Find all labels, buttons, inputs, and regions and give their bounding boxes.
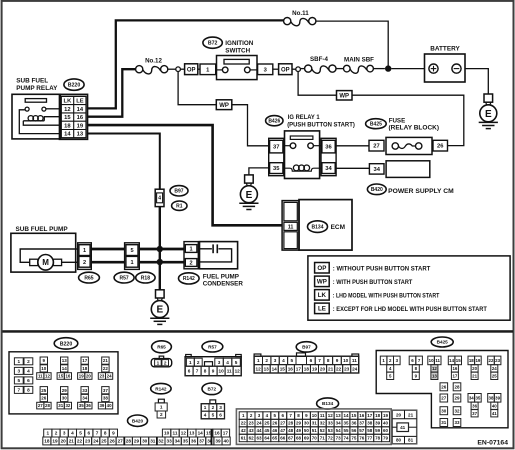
svg-text:49: 49 [296, 428, 302, 433]
svg-text:6: 6 [27, 378, 30, 383]
svg-text:14: 14 [449, 358, 454, 363]
svg-text:R18: R18 [141, 275, 150, 281]
svg-text:14: 14 [343, 413, 349, 418]
svg-text:39: 39 [495, 395, 500, 400]
svg-text:14: 14 [77, 107, 84, 113]
svg-text:ECM: ECM [331, 224, 345, 231]
svg-text:34: 34 [325, 166, 332, 172]
svg-text:31: 31 [150, 439, 156, 444]
svg-text:66: 66 [280, 436, 286, 441]
svg-text:1: 1 [157, 360, 160, 365]
svg-text:11: 11 [288, 224, 294, 230]
svg-text:23: 23 [99, 374, 104, 379]
svg-text:48: 48 [288, 428, 294, 433]
svg-text:65: 65 [272, 436, 278, 441]
svg-text:45: 45 [264, 428, 270, 433]
svg-text:B425: B425 [370, 122, 382, 128]
svg-text:MAIN SBF: MAIN SBF [344, 57, 374, 64]
svg-text:34: 34 [175, 439, 181, 444]
svg-text:8: 8 [204, 369, 207, 374]
svg-text:19: 19 [52, 439, 58, 444]
svg-text:81: 81 [408, 438, 414, 443]
svg-text:OP: OP [281, 67, 290, 73]
svg-text:SUB FUEL: SUB FUEL [16, 77, 48, 84]
svg-text:73: 73 [336, 436, 342, 441]
svg-text:6: 6 [188, 369, 191, 374]
svg-text:38: 38 [367, 421, 373, 426]
svg-text:12: 12 [181, 431, 187, 436]
svg-text:80: 80 [396, 438, 402, 443]
svg-text:BATTERY: BATTERY [430, 46, 460, 53]
svg-text:11: 11 [227, 369, 232, 374]
svg-text:20: 20 [472, 366, 477, 371]
svg-text:27: 27 [280, 421, 286, 426]
svg-text:57: 57 [359, 428, 365, 433]
svg-text:2: 2 [160, 412, 163, 417]
svg-text:10: 10 [218, 369, 224, 374]
svg-text:M: M [42, 258, 49, 267]
svg-text:4: 4 [204, 413, 207, 418]
svg-text:3: 3 [219, 405, 222, 410]
svg-text:OP: OP [317, 265, 326, 272]
svg-text:39: 39 [215, 439, 221, 444]
svg-text:22: 22 [489, 358, 494, 363]
svg-text:13: 13 [189, 431, 195, 436]
svg-text:33: 33 [166, 439, 172, 444]
svg-text:B420: B420 [132, 418, 144, 423]
svg-text:41: 41 [400, 425, 406, 430]
svg-text:13: 13 [62, 358, 68, 363]
svg-text:23: 23 [85, 439, 91, 444]
svg-text:(RELAY BLOCK): (RELAY BLOCK) [389, 125, 440, 132]
svg-text:11: 11 [38, 374, 43, 379]
svg-text:18: 18 [44, 439, 50, 444]
svg-text:17: 17 [452, 373, 457, 378]
svg-text:1: 1 [189, 360, 192, 365]
svg-text:5: 5 [212, 413, 215, 418]
svg-text:B134: B134 [322, 401, 334, 406]
svg-text:39: 39 [375, 421, 381, 426]
svg-text:24: 24 [256, 421, 262, 426]
svg-text:34: 34 [336, 421, 342, 426]
svg-text:31: 31 [312, 421, 318, 426]
svg-text:B97: B97 [174, 189, 183, 195]
svg-text:10: 10 [312, 413, 318, 418]
svg-text:LK: LK [64, 99, 73, 105]
svg-text:63: 63 [256, 436, 262, 441]
svg-text:24: 24 [107, 374, 112, 379]
svg-text:27: 27 [373, 144, 379, 150]
svg-text:7: 7 [196, 369, 199, 374]
svg-text:21: 21 [69, 439, 75, 444]
svg-text:58: 58 [367, 428, 373, 433]
svg-text:4: 4 [282, 358, 285, 363]
svg-text:29: 29 [296, 421, 302, 426]
svg-text:38: 38 [489, 395, 494, 400]
svg-text:SUB FUEL PUMP: SUB FUEL PUMP [16, 226, 69, 233]
svg-text:10: 10 [343, 358, 349, 363]
svg-text:16: 16 [288, 367, 294, 372]
svg-text:24: 24 [93, 439, 99, 444]
svg-text:5: 5 [79, 431, 82, 436]
svg-text:B425: B425 [437, 340, 449, 345]
svg-text:43: 43 [249, 428, 255, 433]
svg-text:5: 5 [130, 248, 133, 254]
svg-text:18: 18 [304, 367, 310, 372]
svg-text:1: 1 [190, 247, 193, 253]
svg-text:39: 39 [99, 403, 104, 408]
svg-text:R57: R57 [120, 275, 129, 281]
svg-text:32: 32 [320, 421, 326, 426]
svg-text:1: 1 [17, 359, 20, 364]
svg-text:64: 64 [264, 436, 270, 441]
svg-text:34: 34 [82, 396, 88, 401]
svg-text:7: 7 [318, 358, 321, 363]
svg-text:1: 1 [83, 248, 86, 254]
svg-text:4: 4 [158, 196, 161, 202]
svg-text:21: 21 [328, 367, 334, 372]
svg-text:1: 1 [46, 431, 49, 436]
svg-text:11: 11 [352, 358, 357, 363]
svg-text:POWER SUPPLY CM: POWER SUPPLY CM [388, 188, 454, 195]
svg-text:7: 7 [17, 388, 20, 393]
svg-text:2: 2 [212, 405, 215, 410]
svg-text:37: 37 [273, 145, 279, 151]
svg-text:No.12: No.12 [145, 57, 162, 64]
svg-text:9: 9 [112, 431, 115, 436]
svg-text:4: 4 [226, 360, 229, 365]
svg-text:14: 14 [62, 366, 68, 371]
svg-text:27: 27 [38, 403, 43, 408]
svg-text:37: 37 [359, 421, 365, 426]
svg-text:8: 8 [104, 431, 107, 436]
svg-text:14: 14 [198, 431, 204, 436]
svg-text:26: 26 [109, 439, 115, 444]
svg-text:1: 1 [130, 260, 133, 266]
svg-text:18: 18 [82, 366, 88, 371]
svg-text:16: 16 [452, 366, 457, 371]
svg-text:29: 29 [62, 388, 68, 393]
svg-text:8: 8 [27, 388, 30, 393]
svg-text:13: 13 [264, 367, 270, 372]
svg-text:34: 34 [469, 395, 474, 400]
svg-text:B72: B72 [207, 387, 216, 392]
svg-text:13: 13 [77, 132, 84, 138]
svg-text:E: E [156, 305, 163, 316]
svg-text:69: 69 [304, 436, 310, 441]
svg-text:71: 71 [320, 436, 326, 441]
svg-text:B220: B220 [68, 83, 81, 89]
svg-text:R1: R1 [176, 204, 183, 210]
svg-text:78: 78 [375, 436, 381, 441]
svg-text:40: 40 [492, 403, 497, 408]
svg-text:35: 35 [183, 439, 189, 444]
svg-text:LE: LE [318, 306, 326, 313]
svg-text:29: 29 [134, 439, 140, 444]
svg-text:SWITCH: SWITCH [225, 48, 250, 55]
svg-text:2: 2 [265, 358, 268, 363]
svg-text:IGNITION: IGNITION [225, 40, 253, 47]
svg-text:B72: B72 [208, 41, 218, 47]
svg-text:7: 7 [96, 431, 99, 436]
svg-text:SBF-4: SBF-4 [310, 56, 328, 63]
svg-text:34: 34 [373, 167, 380, 173]
svg-text:23: 23 [344, 367, 350, 372]
svg-text:20: 20 [61, 439, 67, 444]
svg-text:PUMP RELAY: PUMP RELAY [16, 85, 58, 92]
svg-text:15: 15 [351, 413, 357, 418]
svg-text:19: 19 [383, 413, 389, 418]
svg-text:35: 35 [273, 166, 280, 172]
svg-text:FUEL PUMP: FUEL PUMP [203, 273, 239, 280]
svg-text:3: 3 [274, 358, 277, 363]
svg-text:44: 44 [256, 428, 262, 433]
svg-text:33: 33 [328, 421, 334, 426]
svg-text:30: 30 [62, 396, 68, 401]
svg-text:28: 28 [45, 403, 50, 408]
svg-text:17: 17 [367, 413, 373, 418]
svg-text:12: 12 [235, 369, 241, 374]
svg-text:50: 50 [304, 428, 310, 433]
svg-text:LK: LK [318, 292, 327, 299]
svg-text:22: 22 [77, 439, 83, 444]
svg-text:36: 36 [191, 439, 197, 444]
svg-text:33: 33 [82, 388, 88, 393]
svg-text:IG RELAY 1: IG RELAY 1 [288, 114, 320, 121]
svg-text:2: 2 [190, 261, 193, 267]
svg-text:24: 24 [352, 367, 358, 372]
svg-text:4: 4 [71, 431, 74, 436]
svg-text:26: 26 [437, 144, 444, 150]
svg-text:59: 59 [375, 428, 381, 433]
svg-text:9: 9 [336, 358, 339, 363]
svg-text:(PUSH BUTTON START): (PUSH BUTTON START) [287, 121, 355, 128]
svg-text:FUSE: FUSE [389, 117, 406, 124]
svg-text:27: 27 [441, 396, 447, 401]
svg-text:11: 11 [320, 413, 325, 418]
svg-text:E: E [485, 109, 492, 120]
svg-text:46: 46 [272, 428, 278, 433]
svg-text:3: 3 [218, 360, 221, 365]
svg-text:21: 21 [472, 373, 477, 378]
svg-text:B426: B426 [268, 119, 280, 125]
svg-text:5: 5 [235, 360, 238, 365]
svg-text:2: 2 [83, 260, 86, 266]
svg-text:10: 10 [429, 358, 434, 363]
svg-text:42: 42 [241, 428, 247, 433]
svg-text:8: 8 [327, 358, 330, 363]
svg-text:27: 27 [118, 439, 124, 444]
svg-text:52: 52 [320, 428, 326, 433]
svg-text:36: 36 [86, 403, 91, 408]
svg-text:11: 11 [435, 358, 440, 363]
svg-text:40: 40 [383, 421, 389, 426]
svg-text:12: 12 [328, 413, 334, 418]
svg-text:13: 13 [336, 413, 342, 418]
svg-text:31: 31 [58, 403, 63, 408]
svg-text:17: 17 [296, 367, 302, 372]
svg-text:17: 17 [223, 431, 229, 436]
svg-text:6: 6 [87, 431, 90, 436]
svg-text:R65: R65 [84, 275, 93, 281]
svg-text:16: 16 [214, 431, 220, 436]
svg-text:25: 25 [492, 373, 497, 378]
svg-text:14: 14 [272, 367, 278, 372]
svg-text:35: 35 [79, 403, 84, 408]
svg-text:EN-07164: EN-07164 [477, 440, 508, 447]
svg-text:37: 37 [199, 439, 205, 444]
svg-text:23: 23 [249, 421, 255, 426]
svg-text:R142: R142 [183, 276, 195, 282]
svg-text:40: 40 [107, 403, 112, 408]
svg-text:2: 2 [164, 360, 167, 365]
svg-text:41: 41 [492, 411, 497, 416]
svg-text:26: 26 [272, 421, 278, 426]
svg-text:11: 11 [173, 431, 178, 436]
svg-text:19: 19 [79, 374, 84, 379]
svg-text:R65: R65 [157, 345, 166, 350]
svg-text:28: 28 [126, 439, 132, 444]
svg-text:35: 35 [475, 395, 480, 400]
svg-text:No.11: No.11 [292, 10, 309, 17]
svg-text:32: 32 [158, 439, 164, 444]
svg-text:13: 13 [432, 373, 437, 378]
svg-text:47: 47 [280, 428, 286, 433]
svg-text:18: 18 [375, 413, 381, 418]
svg-text:2: 2 [197, 360, 200, 365]
svg-text:31: 31 [441, 420, 447, 425]
svg-text:18: 18 [64, 123, 71, 129]
svg-text:B220: B220 [60, 341, 73, 347]
svg-text:B97: B97 [302, 345, 311, 350]
svg-text:22: 22 [103, 366, 109, 371]
svg-text:76: 76 [359, 436, 365, 441]
svg-text:16: 16 [65, 374, 70, 379]
svg-text:10: 10 [164, 431, 170, 436]
svg-text:60: 60 [383, 428, 389, 433]
svg-text:33: 33 [454, 420, 460, 425]
svg-text:51: 51 [312, 428, 318, 433]
svg-text:30: 30 [142, 439, 148, 444]
svg-text:20: 20 [396, 413, 402, 418]
svg-text:23: 23 [495, 358, 500, 363]
svg-text:15: 15 [456, 358, 461, 363]
svg-text:25: 25 [41, 388, 47, 393]
svg-text:32: 32 [454, 408, 460, 413]
svg-text:18: 18 [469, 358, 474, 363]
svg-text:25: 25 [101, 439, 107, 444]
svg-text:E: E [246, 190, 253, 201]
svg-text:2: 2 [27, 359, 30, 364]
svg-text:: WITHOUT PUSH BUTTON START: : WITHOUT PUSH BUTTON START [333, 266, 431, 273]
svg-text:CONDENSER: CONDENSER [203, 280, 244, 287]
svg-text:40: 40 [223, 439, 229, 444]
svg-text:4: 4 [27, 369, 30, 374]
svg-text:3: 3 [17, 369, 20, 374]
svg-text:14: 14 [64, 132, 71, 138]
svg-text:72: 72 [328, 436, 334, 441]
svg-text:12: 12 [255, 367, 261, 372]
svg-text:12: 12 [64, 107, 70, 113]
svg-text:67: 67 [288, 436, 294, 441]
svg-text:22: 22 [336, 367, 342, 372]
svg-text:LE: LE [76, 99, 84, 105]
svg-text:R142: R142 [155, 386, 167, 391]
svg-text:: LHD MODEL WITH PUSH BUTTON S: : LHD MODEL WITH PUSH BUTTON START [333, 293, 440, 300]
svg-text:19: 19 [475, 358, 480, 363]
svg-text:32: 32 [65, 403, 70, 408]
svg-text:68: 68 [296, 436, 302, 441]
svg-text:WP: WP [317, 279, 327, 286]
svg-text:5: 5 [290, 358, 293, 363]
svg-text:62: 62 [249, 436, 255, 441]
svg-text:10: 10 [41, 366, 47, 371]
svg-text:35: 35 [343, 421, 349, 426]
svg-text:17: 17 [82, 358, 88, 363]
svg-text:25: 25 [264, 421, 270, 426]
svg-text:21: 21 [408, 413, 414, 418]
svg-text:54: 54 [336, 428, 342, 433]
svg-text:38: 38 [103, 396, 109, 401]
svg-text:WP: WP [339, 94, 349, 100]
svg-text:36: 36 [351, 421, 357, 426]
svg-text:36: 36 [472, 403, 477, 408]
svg-text:16: 16 [359, 413, 365, 418]
svg-text:30: 30 [441, 408, 447, 413]
svg-text:1: 1 [257, 358, 260, 363]
svg-text:12: 12 [432, 366, 437, 371]
svg-text:37: 37 [103, 388, 109, 393]
svg-text:5: 5 [17, 378, 20, 383]
svg-text:12: 12 [45, 374, 50, 379]
svg-text:77: 77 [367, 436, 373, 441]
svg-text:20: 20 [320, 367, 326, 372]
svg-text:6: 6 [310, 358, 313, 363]
svg-text:19: 19 [77, 123, 84, 129]
svg-text:B134: B134 [312, 224, 324, 230]
svg-text:53: 53 [328, 428, 334, 433]
svg-text:1: 1 [204, 405, 207, 410]
svg-text:56: 56 [351, 428, 357, 433]
svg-text:26: 26 [441, 384, 447, 389]
svg-text:15: 15 [280, 367, 286, 372]
svg-text:30: 30 [304, 421, 310, 426]
svg-text:WP: WP [219, 103, 229, 109]
svg-text:20: 20 [86, 374, 91, 379]
svg-text:28: 28 [454, 384, 460, 389]
svg-text:29: 29 [454, 396, 460, 401]
svg-text:70: 70 [312, 436, 318, 441]
svg-text:75: 75 [351, 436, 357, 441]
svg-text:79: 79 [383, 436, 389, 441]
svg-text:74: 74 [343, 436, 349, 441]
svg-text:36: 36 [325, 145, 332, 151]
svg-text:22: 22 [241, 421, 247, 426]
svg-text:R57: R57 [208, 344, 217, 349]
svg-text:: WITH PUSH BUTTON START: : WITH PUSH BUTTON START [333, 279, 413, 286]
svg-text:28: 28 [288, 421, 294, 426]
svg-text:21: 21 [103, 358, 109, 363]
svg-text:37: 37 [472, 411, 477, 416]
svg-text:26: 26 [41, 396, 47, 401]
svg-text:19: 19 [312, 367, 318, 372]
svg-text:B420: B420 [371, 187, 383, 193]
svg-text:6: 6 [219, 413, 222, 418]
svg-text:OP: OP [187, 67, 196, 73]
svg-text:16: 16 [77, 115, 84, 121]
svg-text:15: 15 [64, 115, 71, 121]
svg-text:: EXCEPT FOR LHD MODEL WITH PU: : EXCEPT FOR LHD MODEL WITH PUSH BUTTON … [333, 306, 487, 313]
